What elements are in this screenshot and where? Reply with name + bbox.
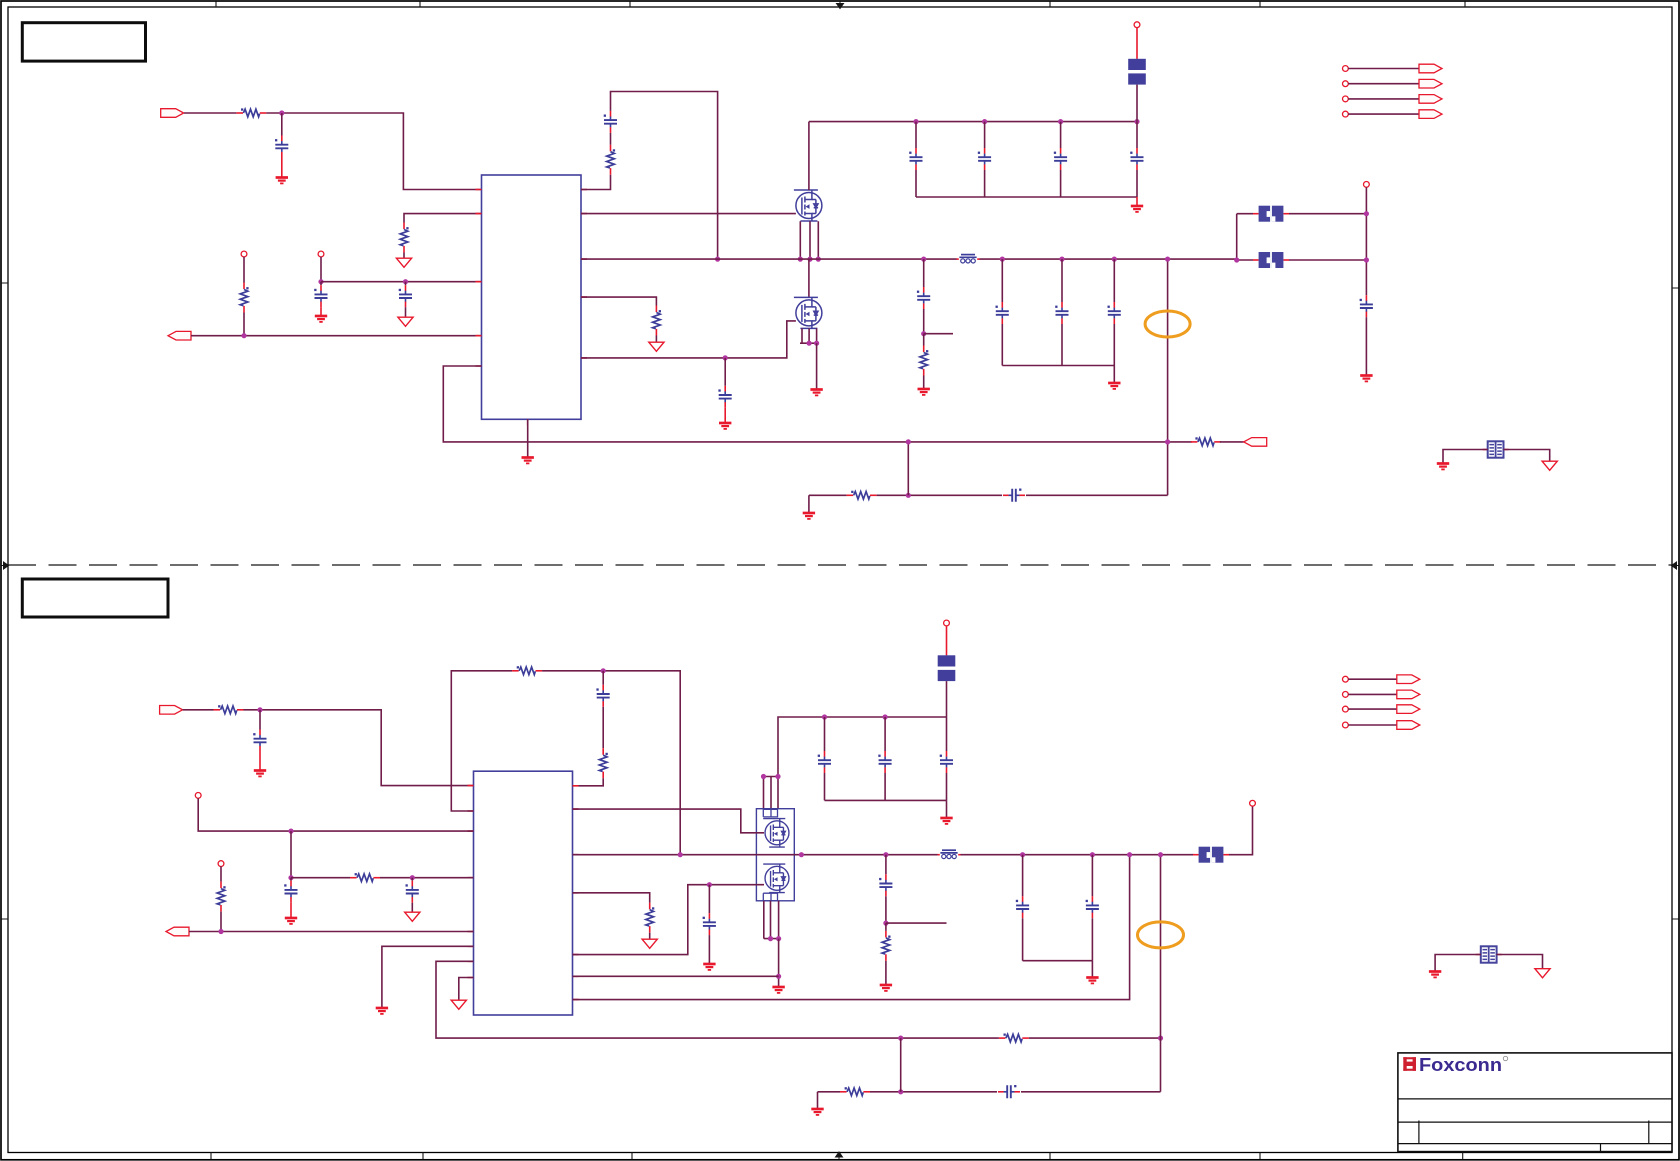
node junction B25 <box>898 1089 903 1094</box>
wire RC row B left ground <box>817 1092 819 1108</box>
connector J11 <box>1397 690 1420 699</box>
wire U2 pin to triangle ground <box>459 978 474 1000</box>
capacitor C23 <box>1016 896 1029 918</box>
node junction B12 <box>775 774 780 779</box>
wire P4 down to C14 <box>1365 187 1367 295</box>
wire R8 to IC U2 <box>244 710 474 786</box>
wire U1 feedback loop bottom <box>443 366 1167 442</box>
capacitor C4 <box>604 111 617 133</box>
wire sense row extension <box>1168 441 1192 443</box>
node junction A20 <box>1165 439 1170 444</box>
capacitor C17 <box>284 881 297 903</box>
node junction B3 <box>288 829 293 834</box>
node junction B14 <box>799 852 804 857</box>
ground below Q4 <box>772 987 784 993</box>
connector J4 <box>1419 64 1442 73</box>
connector J7 <box>1419 110 1442 119</box>
resistor R14 <box>882 931 890 961</box>
transistor Q2 <box>794 297 822 328</box>
title box section A <box>22 23 145 61</box>
ground triangle below R2 <box>396 258 411 267</box>
wire drain legs package <box>764 777 779 809</box>
node junction A6 <box>913 119 918 124</box>
wire R17 to ground <box>923 376 925 389</box>
resistor R4 <box>1191 437 1221 445</box>
ground below C25 <box>703 964 715 970</box>
ground below C1 <box>276 178 288 184</box>
wire bottom link vertical <box>900 1038 902 1092</box>
capacitor C1 <box>275 136 288 158</box>
wire P15 <box>1348 708 1397 710</box>
section divider dashed line <box>8 564 1672 566</box>
ground triangle below U2 <box>451 1000 466 1009</box>
inductor L1 <box>957 255 980 263</box>
pin P3 power A <box>1134 22 1140 28</box>
node junction A2 <box>318 279 323 284</box>
ground left of RP2 <box>1429 972 1441 978</box>
wire U2 pin to ground left <box>382 946 474 1007</box>
connector J3 <box>1244 438 1267 447</box>
node junction B6 <box>218 929 223 934</box>
resistor R16 <box>840 1087 870 1095</box>
wire R3 to output net <box>243 313 245 336</box>
pin P15 <box>1343 706 1349 712</box>
wire P6 <box>1348 83 1419 85</box>
title block outline <box>1398 1053 1672 1152</box>
ground RC row A <box>803 513 815 519</box>
node junction B2 <box>601 668 606 673</box>
wire U1 pin to R2 <box>404 214 482 223</box>
node junction A9 <box>1134 119 1139 124</box>
wire A27 to R17 <box>923 334 925 346</box>
ground triangle below R15 <box>642 939 657 948</box>
capacitor C5 <box>909 148 922 170</box>
connector J12 <box>1397 705 1420 714</box>
package internal pin header bottom <box>763 893 777 901</box>
wire C4 over to SW rail <box>611 92 718 260</box>
wire R9 to corner <box>542 671 680 855</box>
pin P7 <box>1343 96 1349 102</box>
node junction B16 <box>883 921 888 926</box>
wire U2 feedback top loop <box>451 671 512 811</box>
current probe ellipse B <box>1138 922 1184 948</box>
wire F1 to top rail <box>1136 85 1138 122</box>
border tick top <box>216 2 1465 8</box>
border arrow bottom centre <box>836 1152 843 1159</box>
capacitor C24 <box>1086 896 1099 918</box>
wire C9 to ground <box>724 408 726 422</box>
wire U1 bottom pin to ground <box>527 419 529 456</box>
node junction A22 <box>906 439 911 444</box>
wire C14 to ground <box>1365 317 1367 374</box>
wire P2 down <box>320 257 322 282</box>
wire Q2 source legs <box>800 328 817 343</box>
wire R7 to C13 <box>877 494 1002 496</box>
ground triangle below C18 <box>405 912 420 921</box>
resistor R7 <box>847 491 877 499</box>
pin P4 open circle <box>1364 182 1370 188</box>
title block row lines <box>1398 1099 1672 1144</box>
node junction A12 <box>816 257 821 262</box>
node junction A13 <box>723 355 728 360</box>
ground left of RP1 <box>1437 464 1449 470</box>
wire R1 to IC U1 <box>266 113 481 190</box>
wire C26 to sense drop <box>1021 1091 1161 1093</box>
pin P10 open circle <box>218 861 224 867</box>
capacitor C2 <box>314 285 327 307</box>
capacitor C11 <box>1055 302 1068 324</box>
node junction B15 <box>883 852 888 857</box>
node junction A15 <box>814 341 819 346</box>
capacitor C20 <box>878 751 891 773</box>
wire A2 to IC U1 <box>321 281 482 283</box>
inductor L2 <box>938 850 961 858</box>
ground RC row B <box>811 1109 823 1115</box>
wire RP1 left to ground <box>1443 450 1488 463</box>
wire Q1 source legs <box>800 221 818 259</box>
capacitor C21 <box>940 751 953 773</box>
pin P6 <box>1343 81 1349 87</box>
wire R5 to C4 <box>610 133 612 145</box>
wire bus to ground B <box>1091 961 1093 977</box>
node junction A21 <box>906 493 911 498</box>
node junction B11 <box>761 774 766 779</box>
dual MOSFET package outline <box>756 809 794 901</box>
ground below R14 <box>880 985 892 991</box>
wire R4 to connector <box>1220 441 1244 443</box>
wire B16 to R14 <box>885 923 887 931</box>
IC U2 pin stubs <box>468 786 579 1000</box>
wire jumper left leg <box>1237 214 1253 260</box>
wire R10 to U2 <box>579 778 604 786</box>
wire output cap bus <box>1002 324 1114 366</box>
wire B5 down to C18 <box>411 878 413 881</box>
transistor Q4 <box>763 864 789 893</box>
resistor R13 <box>999 1034 1029 1042</box>
resistor R3 <box>240 283 248 313</box>
capacitor C22 <box>879 874 892 896</box>
resistor R12 <box>217 882 225 912</box>
capacitor C27 <box>917 287 930 309</box>
capacitor C18 <box>406 881 419 903</box>
wire U1 to Q2 gate <box>581 321 796 358</box>
node junction A11 <box>807 257 812 262</box>
node junction B9 <box>822 714 827 719</box>
wire cap chain B15 <box>885 855 887 875</box>
connector J10 <box>1397 675 1420 684</box>
wire R16 to C26 <box>870 1091 997 1093</box>
wire P10 to R12 <box>220 866 222 881</box>
capacitor C12 <box>1108 302 1121 324</box>
border arrow left centre <box>2 562 9 569</box>
wire U2 to Q4 gate <box>573 885 765 955</box>
wire P14 <box>1348 693 1397 695</box>
wire A3 down to C3 <box>405 282 407 286</box>
wire RP2 left to ground <box>1435 955 1481 971</box>
pin P8 <box>1343 111 1349 117</box>
wire P1 to R3 <box>243 257 245 283</box>
Foxconn logo H icon <box>1403 1057 1416 1071</box>
connector J9 output B <box>166 927 189 936</box>
node junction A25 <box>1364 257 1369 262</box>
jumper W3 <box>1193 847 1229 863</box>
wire U1 to feedback RC <box>581 175 611 190</box>
resistor R11 <box>350 873 380 881</box>
node junction B22 <box>707 882 712 887</box>
wire C16 to R10 <box>602 707 604 748</box>
capacitor C14 <box>1360 295 1373 317</box>
wire RC row A left <box>808 495 810 512</box>
wire stub right of B16 <box>886 922 947 924</box>
wire jumper right leg <box>1289 214 1366 260</box>
wire C25 to ground <box>708 935 710 963</box>
ground below C2 <box>315 316 327 322</box>
connector J2 output A <box>168 331 191 340</box>
ground below output caps B <box>1086 978 1098 984</box>
title block column dividers <box>1419 1121 1649 1152</box>
wire Q2 drain <box>808 259 810 297</box>
ground below cap bus B <box>940 818 952 824</box>
ground triangle right of RP1 <box>1542 461 1557 470</box>
node junction B20 <box>776 936 781 941</box>
node junction B13 <box>678 852 683 857</box>
pin P5 <box>1343 66 1349 72</box>
IC U1 <box>482 175 582 419</box>
title box section B <box>22 579 168 617</box>
ground below C9 <box>719 423 731 429</box>
IC U1 pin stubs <box>476 190 588 426</box>
capacitor C26 <box>998 1085 1020 1098</box>
wire B4 down to C17 <box>290 878 292 881</box>
connector J13 <box>1397 721 1420 730</box>
pin P1 open circle <box>241 251 247 257</box>
capacitor C3 <box>399 285 412 307</box>
wire RC row B <box>818 1091 841 1093</box>
node junction B7 <box>898 1036 903 1041</box>
resistor R1 <box>236 108 266 116</box>
capacitor C8 <box>1130 148 1143 170</box>
wire top rail B <box>778 717 947 777</box>
node junction A27 <box>921 331 926 336</box>
wire C27 to junction <box>923 309 925 334</box>
node junction A24 <box>1364 211 1369 216</box>
wire cap bus A <box>916 170 1137 197</box>
wire input B to R8 <box>183 709 214 711</box>
wire R14 to ground <box>885 961 887 984</box>
wire bus to ground <box>1113 366 1115 383</box>
node junction A1 <box>279 110 284 115</box>
wire A13 to C9 <box>724 358 726 386</box>
wire source to ground B <box>778 939 780 986</box>
border arrow right centre <box>1672 562 1679 569</box>
node junction A19 <box>1165 257 1170 262</box>
wire B2 to C16 <box>602 671 604 685</box>
wire output cap bus B <box>1023 918 1093 961</box>
connector J6 <box>1419 95 1442 104</box>
wire U1 to R6 <box>581 297 656 305</box>
transistor Q3 <box>763 819 789 848</box>
wire top rail A <box>809 121 1137 123</box>
wire B22 to C25 <box>708 885 710 913</box>
node junction B4 <box>288 875 293 880</box>
wire C17 to ground <box>290 903 292 917</box>
wire bus B to ground <box>946 800 948 817</box>
wire Q4 source legs <box>764 901 779 939</box>
connector J1 input A <box>161 109 184 118</box>
node junction A3 <box>403 279 408 284</box>
wire R6 to ground <box>655 336 657 342</box>
capacitor C7 <box>1054 148 1067 170</box>
node junction A18 <box>1112 257 1117 262</box>
wire U1 to Q1 gate <box>581 213 796 215</box>
capacitor C25 <box>703 913 716 935</box>
pin P16 <box>1343 722 1349 728</box>
capacitor C9 <box>718 386 731 408</box>
resistor R10 <box>599 748 607 778</box>
wire P7 <box>1348 98 1419 100</box>
wire P11 to fuse F2 <box>946 626 948 656</box>
node junction A16 <box>1000 257 1005 262</box>
pin P2 open circle <box>318 251 324 257</box>
transistor Q1 <box>794 190 822 221</box>
wire input A to R1 <box>184 112 236 114</box>
wire Q1 drain up <box>808 122 810 191</box>
Foxconn registered mark <box>1503 1056 1507 1060</box>
node junction A17 <box>1059 257 1064 262</box>
wire Q2 source to ground <box>816 343 818 388</box>
wire sense drop A <box>1167 259 1169 495</box>
svg-text:Foxconn: Foxconn <box>1419 1055 1502 1075</box>
wire R11 to U2 <box>380 877 474 879</box>
node junction B10 <box>883 714 888 719</box>
wire SW rail B <box>573 806 1253 855</box>
node junction A4 <box>241 333 246 338</box>
node junction A23 <box>1234 257 1239 262</box>
ground below U1 <box>522 458 534 464</box>
package internal pin header top <box>763 809 777 817</box>
capacitor C16 <box>596 685 609 707</box>
capacitor C15 <box>253 730 266 752</box>
wire U2 pin to source junction <box>573 975 779 977</box>
wire C18 to ground triangle <box>411 903 413 912</box>
wire sense drop B <box>1160 855 1162 1092</box>
resistor R6 <box>653 306 661 336</box>
wire P16 <box>1348 724 1397 726</box>
fuse F1 <box>1128 59 1146 85</box>
node junction B17 <box>1020 852 1025 857</box>
wire cap drops rail B <box>825 717 947 751</box>
resistor pack RP2 <box>1476 946 1502 962</box>
wire RP2 right to ground <box>1496 955 1542 969</box>
wire cap bus ground stub <box>1136 197 1138 205</box>
node junction A5 <box>715 257 720 262</box>
border arrow top centre <box>837 2 844 9</box>
ground below output caps <box>1108 383 1120 389</box>
wire sense link vertical <box>907 442 909 495</box>
resistor R8 <box>214 705 244 713</box>
IC U2 <box>474 771 573 1015</box>
pin P9 open circle <box>195 793 201 799</box>
wire B3 down <box>290 831 292 878</box>
capacitor C6 <box>978 148 991 170</box>
wire F2 to rail B <box>946 681 948 717</box>
ground below C17 <box>285 918 297 924</box>
node junction A14 <box>807 341 812 346</box>
node junction A26 <box>921 257 926 262</box>
ground below left <box>376 1008 388 1014</box>
connector J8 input B <box>160 706 183 715</box>
ground below C15 <box>254 771 266 777</box>
wire U2 low pin right <box>573 855 1130 1000</box>
wire P8 <box>1348 113 1419 115</box>
node junction B18 <box>1090 852 1095 857</box>
node junction A10 <box>798 257 803 262</box>
ground triangle right of RP2 <box>1535 969 1550 978</box>
wire P13 <box>1348 678 1397 680</box>
wire cap bus B <box>825 773 947 800</box>
resistor R15 <box>646 903 654 933</box>
wire SW rail A <box>581 258 1237 260</box>
border tick left <box>2 283 9 919</box>
wire R2 to ground <box>403 253 405 258</box>
resistor R17 <box>920 346 928 376</box>
pin P12 open circle <box>1250 800 1256 806</box>
pin P13 <box>1343 676 1349 682</box>
node junction B23 <box>1127 852 1132 857</box>
node junction B21 <box>776 974 781 979</box>
wire C15 to ground <box>259 752 261 770</box>
wire J2 to IC U1 <box>191 335 482 337</box>
wire A2 down to C2 <box>320 282 322 286</box>
wire C2 to ground <box>320 307 322 315</box>
ground triangle below C3 <box>398 317 413 326</box>
jumper W1 <box>1253 206 1289 222</box>
wire C22 to junction <box>885 896 887 923</box>
wire P9 to U2 <box>198 798 473 831</box>
border tick bottom <box>211 1153 1463 1160</box>
wire B1 down <box>259 710 261 730</box>
wire R12 down <box>220 912 222 932</box>
wire P5 <box>1348 68 1419 70</box>
node junction A7 <box>982 119 987 124</box>
wire output cap drops <box>1002 259 1114 302</box>
wire R13 to sense drop <box>1029 1037 1161 1039</box>
wire cap drops top rail <box>916 122 1137 148</box>
capacitor C10 <box>996 302 1009 324</box>
ground below Q2 <box>810 390 822 396</box>
connector J5 <box>1419 79 1442 88</box>
ground triangle below R6 <box>649 342 664 351</box>
jumper W2 <box>1253 252 1289 268</box>
wire U2 bottom loop <box>436 961 999 1038</box>
wire stub right of A27 <box>924 333 953 335</box>
ground below C14 <box>1360 376 1372 382</box>
node junction B24 <box>1158 852 1163 857</box>
wire R15 to ground <box>649 933 651 939</box>
wire C1 to ground <box>281 158 283 177</box>
node junction B1 <box>257 707 262 712</box>
ground below cap bus A <box>1131 206 1143 212</box>
wire P3 to fuse F1 <box>1136 28 1138 59</box>
wire U2 to R15 chain <box>573 893 650 903</box>
resistor pack RP1 <box>1483 441 1509 457</box>
pin P14 <box>1343 692 1349 698</box>
node junction A8 <box>1058 119 1063 124</box>
capacitor C13 <box>1003 489 1025 502</box>
wire output cap drops B <box>1023 855 1093 897</box>
wire RC row A <box>809 494 847 496</box>
resistor R5 <box>607 145 615 175</box>
